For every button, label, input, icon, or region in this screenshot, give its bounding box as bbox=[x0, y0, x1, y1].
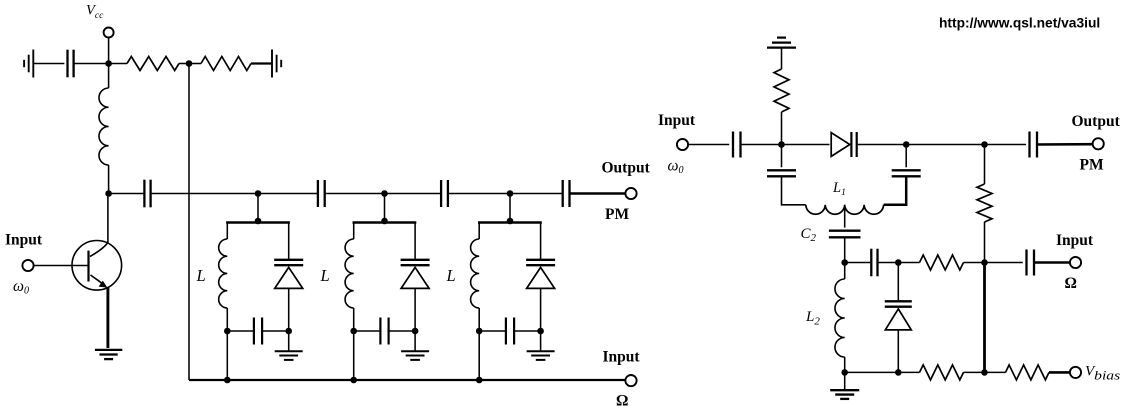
node collector bbox=[105, 190, 112, 197]
wire C9 to PM output (right) bbox=[1037, 143, 1093, 146]
node A (diode anode) bbox=[778, 141, 785, 148]
wire node F to bias rail bbox=[983, 263, 986, 373]
node tank1 top bbox=[255, 190, 262, 197]
node G (ground node) bbox=[841, 369, 848, 376]
wire omega input rail bbox=[189, 379, 626, 381]
ground flipped (top, bias return) bbox=[767, 46, 796, 48]
wire tank1 left top bbox=[226, 223, 228, 240]
wire bias rail left bbox=[845, 371, 920, 373]
wire tank2 node to C4 bbox=[385, 193, 442, 195]
wire Vcc node to R1 bbox=[109, 63, 127, 65]
wire node B to node C bbox=[906, 144, 984, 146]
varactor D4 (series) bbox=[831, 133, 850, 157]
wire tank3 to omega rail bbox=[478, 331, 480, 380]
capacitor C6 (input coupling) bbox=[732, 132, 734, 158]
wire varactor D1 to bottom-right node bbox=[288, 289, 290, 331]
wire tank3 to ground bbox=[540, 331, 542, 351]
node tank3 bottom-left bbox=[476, 328, 483, 335]
input terminal omega0 bbox=[22, 260, 33, 271]
node bias divider bbox=[186, 60, 193, 67]
capacitor C8 (Omega input coupling) bbox=[1025, 250, 1027, 276]
ground (emitter) bbox=[95, 349, 122, 351]
node H on bias rail bbox=[895, 369, 902, 376]
node C bbox=[981, 141, 988, 148]
wire tank3 bottom-left to cap bbox=[479, 330, 505, 332]
wire main to tank3 bar bbox=[509, 194, 511, 223]
wire node G to ground bbox=[844, 372, 846, 390]
svg-text:L: L bbox=[320, 266, 330, 285]
wire bias line vertical bbox=[188, 64, 190, 381]
chassis ground left of C1 bbox=[32, 50, 34, 78]
wire tank2 left top bbox=[353, 223, 355, 240]
capacitor C3 (coupling) bbox=[317, 180, 319, 207]
wire tank3 cap to bottom-right bbox=[515, 330, 541, 332]
node tank1 on omega rail bbox=[224, 377, 231, 384]
wire node D to C7 bbox=[845, 262, 871, 264]
inductor L tank2 bbox=[345, 239, 354, 308]
node tank1 bottom-left bbox=[224, 328, 231, 335]
wire C2 to tank1 node bbox=[151, 193, 258, 195]
capacitor C2 (coupling) bbox=[143, 180, 145, 208]
wire tank3 node to C5 bbox=[510, 193, 563, 195]
input terminal omega0 (right) bbox=[677, 139, 688, 150]
wire Cb to L1 right bbox=[884, 176, 907, 205]
wire varactor D3 to bottom-right node bbox=[540, 289, 542, 331]
wire tank1 top bar bbox=[226, 221, 290, 224]
wire node I to R7 bbox=[985, 371, 1006, 373]
wire collector to C2 bbox=[109, 193, 144, 195]
wire Vcc node to RFC bbox=[108, 64, 110, 89]
capacitor C1 (Vcc bypass left) bbox=[66, 50, 68, 78]
wire R2 to right ground bbox=[251, 62, 272, 64]
wire R4 to node F bbox=[964, 262, 985, 264]
inductor L2 bbox=[835, 279, 845, 357]
svg-text:Output: Output bbox=[602, 160, 651, 177]
wire tank2 to omega rail bbox=[353, 331, 355, 380]
inductor L tank3 bbox=[471, 239, 480, 308]
wire input to C6 bbox=[688, 144, 730, 146]
wire L2 to ground node bbox=[844, 357, 846, 372]
wire main to tank2 bar bbox=[384, 194, 386, 223]
wire Vcc terminal to top node bbox=[108, 38, 110, 64]
wire tank2 inductor to bottom node bbox=[353, 308, 355, 331]
output terminal PM bbox=[625, 188, 636, 199]
wire tank1 to omega rail bbox=[226, 331, 228, 380]
wire C5 to PM output bbox=[570, 192, 626, 195]
resistor R7 bbox=[1006, 365, 1050, 380]
wire tank1 bottom-left to cap bbox=[227, 330, 253, 332]
capacitor C4 (coupling) bbox=[440, 180, 442, 207]
wire C3 to tank2 node bbox=[325, 193, 385, 195]
capacitor Cb (right of L1) bbox=[892, 169, 921, 171]
wire node A to Ca bbox=[781, 145, 783, 168]
svg-text:PM: PM bbox=[1080, 157, 1104, 174]
wire tank3 left top bbox=[478, 223, 480, 240]
wire tank3 right top bbox=[540, 223, 542, 260]
wire tank1 node to C3 bbox=[258, 193, 318, 195]
node F bbox=[981, 259, 988, 266]
node tank2 bottom-right bbox=[412, 328, 419, 335]
wire tank3 inductor to bottom node bbox=[478, 308, 480, 331]
varactor D5 bbox=[885, 300, 912, 302]
resistor R5 (node C to node F) bbox=[984, 145, 986, 185]
inductor L1 bbox=[806, 205, 884, 214]
svg-text:Output: Output bbox=[1072, 113, 1121, 130]
varactor D3 bbox=[526, 259, 555, 261]
node tank2 on omega rail bbox=[350, 377, 357, 384]
wire input to base bbox=[33, 265, 87, 267]
capacitor tank2 bottom bbox=[379, 318, 381, 345]
wire varactor D2 to bottom-right node bbox=[414, 289, 416, 331]
input terminal Omega (left) bbox=[625, 375, 636, 386]
wire C8 to Omega terminal bbox=[1034, 261, 1070, 264]
wire Ca to L1 left bbox=[782, 176, 806, 205]
wire RFC to collector node bbox=[108, 165, 110, 194]
node tank3 top bbox=[507, 190, 514, 197]
resistor R4 bbox=[920, 255, 964, 270]
wire tank2 bottom-left to cap bbox=[354, 330, 380, 332]
wire C2 to node D bbox=[844, 237, 846, 262]
node tank2 bar bbox=[381, 218, 388, 225]
wire main to tank1 bar bbox=[257, 194, 259, 223]
node tank3 bar bbox=[507, 218, 514, 225]
wire tank2 top bar bbox=[353, 221, 417, 224]
wire C7 to node E bbox=[879, 262, 899, 264]
wire R6 to node I bbox=[964, 371, 985, 373]
chassis ground right of R2 bbox=[271, 50, 273, 78]
wire node F to C8 bbox=[985, 262, 1023, 264]
node tank1 bottom-right bbox=[285, 328, 292, 335]
node tank1 bar bbox=[255, 218, 262, 225]
svg-text:Input: Input bbox=[5, 232, 43, 249]
wire C6 to node A bbox=[741, 144, 830, 146]
ground tank2 bbox=[401, 350, 429, 352]
resistor R6 bbox=[920, 365, 964, 380]
wire tank1 cap to bottom-right bbox=[263, 330, 289, 332]
resistor R2 bbox=[201, 57, 251, 71]
capacitor tank1 bottom bbox=[253, 318, 255, 345]
node tank2 bottom-left bbox=[350, 328, 357, 335]
resistor R3 (bias) bbox=[774, 69, 789, 112]
node I bbox=[981, 369, 988, 376]
wire D4 to node B bbox=[858, 144, 906, 146]
wire tank2 cap to bottom-right bbox=[389, 330, 415, 332]
power terminal Vcc bbox=[104, 28, 114, 38]
wire tank1 to ground bbox=[288, 331, 290, 351]
varactor D2 bbox=[401, 259, 430, 261]
ground tank3 bbox=[527, 350, 555, 352]
wire tank1 right top bbox=[288, 223, 290, 260]
svg-text:Ω: Ω bbox=[616, 393, 628, 408]
svg-text:Input: Input bbox=[658, 112, 696, 129]
capacitor tank3 bottom bbox=[505, 318, 507, 345]
svg-text:Input: Input bbox=[1056, 232, 1094, 249]
wire R3 to node A bbox=[781, 112, 783, 145]
node tank2 top bbox=[381, 190, 388, 197]
wire node E to R4 bbox=[898, 262, 919, 264]
capacitor C7 bbox=[870, 249, 872, 277]
node tank3 bottom-right bbox=[537, 328, 544, 335]
wire tank2 right top bbox=[414, 223, 416, 260]
varactor D1 bbox=[274, 259, 303, 261]
node B (diode cathode) bbox=[903, 141, 910, 148]
wire node B to Cb bbox=[905, 145, 907, 168]
wire R7 to Vbias terminal bbox=[1049, 371, 1070, 374]
wire C4 to tank3 node bbox=[448, 193, 510, 195]
capacitor Ca (left of L1) bbox=[767, 169, 796, 171]
wire tank1 inductor to bottom node bbox=[226, 308, 228, 331]
svg-text:L: L bbox=[446, 266, 456, 285]
node E bbox=[895, 259, 902, 266]
node D bbox=[841, 259, 848, 266]
capacitor C9 (output coupling) bbox=[1028, 132, 1030, 158]
svg-text:Ω: Ω bbox=[1065, 275, 1077, 292]
wire node C to C9 bbox=[985, 144, 1027, 146]
wire tank3 top bar bbox=[478, 221, 542, 224]
input terminal Omega (right) bbox=[1070, 257, 1081, 268]
wire C1 to Vcc node bbox=[74, 63, 109, 65]
ground (right circuit) bbox=[830, 389, 859, 391]
capacitor C2 (right circuit) bbox=[829, 229, 861, 231]
node tank3 on omega rail bbox=[476, 377, 483, 384]
inductor L tank1 bbox=[219, 239, 228, 308]
wire tank2 to ground bbox=[414, 331, 416, 351]
wire bias node to R2 bbox=[189, 63, 201, 65]
wire left ground to C1 bbox=[33, 63, 64, 65]
capacitor C5 (output coupling) bbox=[562, 180, 564, 207]
svg-text:Input: Input bbox=[603, 349, 641, 366]
wire R1 to bias node bbox=[179, 63, 189, 65]
inductor RFC (collector choke) bbox=[99, 88, 109, 165]
output terminal PM (right) bbox=[1093, 138, 1104, 149]
terminal Vbias bbox=[1070, 367, 1081, 378]
wire D5 to bias rail bbox=[897, 330, 899, 372]
transistor Q1 bbox=[72, 240, 122, 290]
wire ground to R3 bbox=[781, 48, 783, 69]
node at Vcc line / top rail bbox=[105, 60, 112, 67]
wire L1 center tap to C2 bbox=[844, 205, 846, 228]
resistor R1 bbox=[127, 57, 179, 71]
wire node D to L2 bbox=[844, 263, 846, 280]
svg-text:L: L bbox=[196, 266, 206, 285]
svg-text:PM: PM bbox=[605, 206, 629, 223]
wire node E to D5 bbox=[897, 263, 899, 301]
ground tank1 bbox=[275, 350, 303, 352]
svg-text:http://www.qsl.net/va3iul: http://www.qsl.net/va3iul bbox=[939, 16, 1100, 31]
